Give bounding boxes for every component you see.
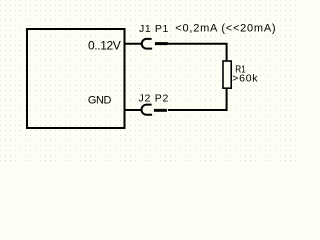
svg-text:0..12V: 0..12V — [88, 38, 121, 52]
source box (0..12V / GND block) — [27, 29, 125, 128]
wire from resistor R1 bottom to connector P2 — [168, 88, 227, 110]
connector P2 male pin — [154, 109, 167, 112]
connector J1 female socket — [142, 39, 152, 49]
wire from box GND pin to connector J2 — [126, 109, 142, 111]
connector J2 female socket — [142, 105, 153, 115]
wire from P1 to resistor R1 top — [168, 44, 227, 61]
svg-text:J1 P1: J1 P1 — [139, 23, 168, 35]
svg-text:J2 P2: J2 P2 — [139, 92, 169, 104]
wire from box 0..12V pin to connector J1 — [126, 43, 142, 45]
connector P1 male pin — [155, 42, 168, 45]
resistor R1 body — [223, 61, 231, 88]
svg-text:>60k: >60k — [232, 72, 258, 84]
svg-text:<0,2mA (<<20mA): <0,2mA (<<20mA) — [175, 23, 275, 35]
svg-text:GND: GND — [88, 94, 112, 106]
